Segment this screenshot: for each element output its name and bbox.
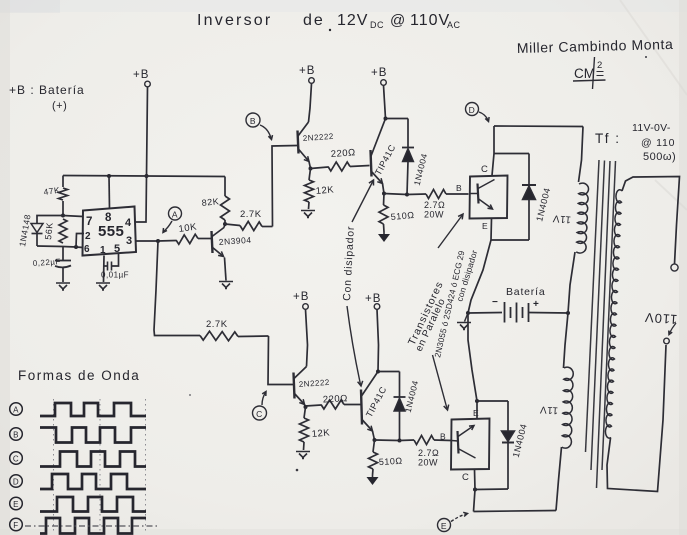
+B terminal (555 rail) xyxy=(133,69,150,87)
svg-text:12K: 12K xyxy=(315,184,334,197)
label 500W spec xyxy=(643,151,676,163)
svg-text:@: @ xyxy=(390,12,406,29)
arrow con disipador to lower TIP41C xyxy=(347,306,363,386)
waveform node label F xyxy=(10,518,23,531)
junction +B/rail xyxy=(145,174,149,178)
svg-text:+B: +B xyxy=(133,69,149,81)
resistor 82K xyxy=(201,177,229,225)
transformer secondary winding xyxy=(605,190,622,438)
label Formas de Onda xyxy=(18,368,140,383)
capacitor 0.22uF xyxy=(33,247,71,283)
pin 3 label xyxy=(126,235,133,247)
label Tf: xyxy=(595,131,621,146)
resistor 10K xyxy=(158,221,211,244)
svg-text:C: C xyxy=(256,409,263,419)
svg-text:220Ω: 220Ω xyxy=(330,147,356,160)
label C (Q7 collector) xyxy=(462,472,469,483)
label 11V (lower winding) xyxy=(539,404,558,416)
svg-text:1: 1 xyxy=(100,245,106,256)
wire top rail to transformer xyxy=(494,125,583,128)
waveform node label E xyxy=(10,497,23,510)
wire pin5 down xyxy=(112,254,119,267)
IC 555 timer box xyxy=(83,207,137,256)
node E arrow xyxy=(451,512,468,521)
transistor Q1 2N3904 xyxy=(212,228,252,281)
waveform F dash-dot baseline xyxy=(25,525,160,527)
svg-text:F: F xyxy=(13,521,18,530)
svg-text:11V-0V-: 11V-0V- xyxy=(632,122,671,134)
svg-text:CM: CM xyxy=(574,66,595,81)
wire Q6 emitter down to battery node xyxy=(468,240,491,313)
wire +B to Q4 collector xyxy=(306,310,308,367)
svg-text:2.7Ω: 2.7Ω xyxy=(424,200,445,210)
arrow at bottom terminal xyxy=(669,323,676,335)
wire pin2 stub xyxy=(76,234,84,248)
ground (12K lower) xyxy=(296,452,310,459)
wire centre tap to lower winding xyxy=(564,313,569,368)
svg-text:2.7Ω: 2.7Ω xyxy=(418,448,439,458)
label 11V-0V secondary spec xyxy=(632,122,671,134)
waveform node label A xyxy=(10,403,23,416)
transistor Q7 2N3055 (lower, boxed) xyxy=(451,419,490,470)
svg-text:E: E xyxy=(13,500,19,509)
junction TIP41C collector/diode xyxy=(384,117,388,121)
wire Q7 emitter up xyxy=(476,401,478,419)
waveform trace A xyxy=(40,403,146,416)
wire 2.7K up to 2N2222 base xyxy=(272,146,297,227)
diode D4 1N4004 (upper power) xyxy=(522,154,552,241)
label Con disipador xyxy=(341,225,357,301)
node C xyxy=(253,406,267,420)
transistor Q5 TIP41C (lower) xyxy=(361,372,389,432)
svg-text:+B: +B xyxy=(371,67,387,79)
signature: Miller Cambindo Monta xyxy=(517,36,674,56)
terminal secondary bottom xyxy=(664,338,670,344)
svg-text:6: 6 xyxy=(84,244,90,255)
waveform trace C xyxy=(40,452,146,467)
svg-text:B: B xyxy=(440,432,446,442)
ground (510R lower) xyxy=(367,475,379,485)
svg-text:+B: +B xyxy=(293,291,309,303)
resistor 2.7K (upper) xyxy=(225,209,273,231)
wire Q7 collector down xyxy=(474,470,476,512)
label E (Q6 emitter) xyxy=(482,221,488,231)
wire +B to TIP41C lower collector xyxy=(377,310,379,372)
transistor Q2 2N2222 (upper) xyxy=(298,122,335,162)
svg-text:220Ω: 220Ω xyxy=(323,393,348,405)
svg-text:0,01µF: 0,01µF xyxy=(101,271,129,280)
svg-text:2.7K: 2.7K xyxy=(206,319,228,330)
wire pin8 to rail xyxy=(108,176,111,209)
node A xyxy=(169,207,182,220)
svg-text:110V: 110V xyxy=(410,12,450,29)
waveform trace B xyxy=(40,428,146,443)
transformer core xyxy=(586,160,616,488)
label B (Q7 base) xyxy=(440,432,446,442)
resistor 12K (lower) xyxy=(300,407,331,450)
svg-text:510Ω: 510Ω xyxy=(379,456,403,467)
wire Q6 emitter to diode bottom xyxy=(491,219,529,241)
wire pin3 output xyxy=(136,240,158,242)
junction Q1 collector xyxy=(223,222,227,228)
svg-text:7: 7 xyxy=(86,216,93,228)
svg-text:56K: 56K xyxy=(43,222,55,240)
svg-text:B: B xyxy=(13,431,19,440)
wire up to lower winding xyxy=(556,447,562,511)
wire pin1 down xyxy=(103,256,106,283)
ground (510R upper) xyxy=(378,232,390,242)
transistor Q6 2N3055 (upper, boxed) xyxy=(470,176,508,219)
label E (Q7 emitter) xyxy=(473,408,479,418)
junction Q4 emitter xyxy=(304,405,308,410)
node D arrow xyxy=(479,112,489,122)
svg-text:(+): (+) xyxy=(52,100,67,112)
diode D5 1N4004 (lower power) xyxy=(502,401,529,489)
wire collector to diode D2 top xyxy=(386,118,409,120)
svg-text:AC: AC xyxy=(447,20,461,30)
svg-text:E: E xyxy=(482,221,488,231)
ground (0.22uF) xyxy=(56,283,70,290)
wire node to pin7 xyxy=(63,216,83,217)
svg-text:2.7K: 2.7K xyxy=(240,209,262,220)
label 11V (upper winding) xyxy=(552,212,571,225)
+B terminal (TIP41C upper) xyxy=(371,67,387,85)
resistor 510R (lower) xyxy=(369,440,403,475)
node E xyxy=(438,519,451,532)
battery B1 xyxy=(468,297,568,323)
+B terminal (2N2222 upper) xyxy=(299,65,315,83)
pin 4 label xyxy=(125,217,132,229)
waveform grid dotted lines xyxy=(54,399,146,531)
junction battery negative xyxy=(466,311,470,315)
wire emitter rail (upper) xyxy=(384,194,407,195)
wire rail branch to diode D4 xyxy=(494,153,529,155)
svg-text:−: − xyxy=(492,297,498,308)
svg-text:D: D xyxy=(13,478,19,487)
wire down to Q4 base xyxy=(268,336,293,385)
node C arrow xyxy=(262,392,266,406)
ground (12K upper) xyxy=(301,211,315,218)
svg-text:12V: 12V xyxy=(337,12,368,29)
label B (Q6 base) xyxy=(456,183,462,193)
svg-text:+B: +B xyxy=(299,65,315,77)
svg-text:Batería: Batería xyxy=(506,286,545,298)
svg-text:20W: 20W xyxy=(418,458,438,468)
wire +B to Q2 collector xyxy=(309,84,312,123)
svg-text:B: B xyxy=(250,116,256,126)
svg-text:+B : Batería: +B : Batería xyxy=(9,83,85,97)
svg-text:C: C xyxy=(462,472,469,483)
svg-text:+B: +B xyxy=(365,293,381,305)
pin 5 label xyxy=(114,243,121,255)
svg-text:@ 110: @ 110 xyxy=(641,137,675,149)
svg-text:2: 2 xyxy=(85,231,91,242)
+B terminal (2N2222 lower) xyxy=(293,291,309,309)
waveform node label D xyxy=(10,475,23,488)
junction rail/pin8 xyxy=(107,174,111,178)
wire Q7 emitter node to battery node xyxy=(468,313,477,401)
svg-text:8: 8 xyxy=(105,212,112,224)
label Bateria xyxy=(506,286,545,298)
terminal secondary top xyxy=(671,264,678,271)
label C (Q6 collector) xyxy=(481,164,488,175)
svg-text:C: C xyxy=(481,164,488,175)
waveform node label B xyxy=(10,428,23,441)
pin 1 label xyxy=(100,245,106,256)
svg-text:A: A xyxy=(172,210,178,220)
svg-text:C: C xyxy=(13,455,19,464)
wire +B rail xyxy=(63,176,225,177)
arrow to Q6 (paralelo) xyxy=(438,214,463,248)
junction TIP41C lower collector xyxy=(376,370,380,374)
resistor 2.7R 20W (lower) xyxy=(400,436,452,468)
transformer upper primary winding xyxy=(576,183,588,253)
ground (battery) xyxy=(457,313,471,330)
ground (Q1 emitter) xyxy=(219,282,233,289)
legend: +B Bateria (+) xyxy=(9,83,85,112)
svg-text:A: A xyxy=(13,406,19,415)
junction pin2/6 tie xyxy=(74,245,78,249)
waveform trace F xyxy=(40,518,146,534)
junction Q2 emitter xyxy=(309,162,313,171)
wire +B stem down to pin4 xyxy=(136,87,148,222)
+B terminal (TIP41C lower) xyxy=(365,293,381,309)
svg-text:+: + xyxy=(533,299,539,310)
junction Q7 collector node xyxy=(473,488,477,492)
wire secondary bottom lead xyxy=(607,345,666,492)
wire rail corner down to upper winding xyxy=(579,127,584,183)
svg-text:510Ω: 510Ω xyxy=(390,210,415,222)
svg-text:500ω): 500ω) xyxy=(643,151,676,163)
junction pin3 node xyxy=(156,239,160,243)
diode D2 1N4004 (upper TIP41C) xyxy=(402,119,429,195)
arrow con disipador to upper TIP41C xyxy=(352,180,374,222)
junction diode bottom (upper) xyxy=(405,193,409,197)
transistor Q3 TIP41C (upper) xyxy=(371,119,398,184)
svg-text:Tf :: Tf : xyxy=(595,131,621,146)
waveform trace E xyxy=(40,497,146,512)
svg-text:110V: 110V xyxy=(644,310,678,327)
wire rail down to Q6 collector xyxy=(492,126,494,176)
wire bottom rail to transformer xyxy=(474,511,557,512)
svg-text:20W: 20W xyxy=(424,210,444,220)
pin 8 label xyxy=(105,212,112,224)
diode 1N4148 xyxy=(17,213,43,247)
wire pin3 node down to 2.7K lower xyxy=(154,241,200,336)
resistor 56K xyxy=(43,219,67,243)
svg-text:3: 3 xyxy=(126,235,133,247)
svg-text:12K: 12K xyxy=(311,427,330,440)
wire emitter node to diode D5 top xyxy=(477,400,508,402)
waveform trace D xyxy=(40,474,146,489)
svg-text:555: 555 xyxy=(98,223,124,240)
label @110 spec xyxy=(641,137,675,149)
wire pins 2-6 bottom node xyxy=(37,246,83,248)
svg-text:D: D xyxy=(469,105,476,115)
svg-text:2: 2 xyxy=(597,60,603,71)
wire +B to TIP41C collector xyxy=(384,86,386,119)
title: Inversor de 12VDC @ 110VAC xyxy=(197,12,461,31)
capacitor 0.01uF xyxy=(101,262,129,280)
pin 6 label xyxy=(84,244,90,255)
svg-text:11V: 11V xyxy=(552,212,571,225)
svg-text:11V: 11V xyxy=(539,404,558,416)
node A arrow xyxy=(163,221,172,233)
waveform node label C xyxy=(10,452,23,465)
junction transformer centre tap xyxy=(566,311,570,315)
svg-text:5: 5 xyxy=(114,243,121,255)
resistor 12K (upper) xyxy=(305,169,335,210)
transformer lower primary winding xyxy=(562,367,573,448)
ground (pin 1) xyxy=(96,283,110,290)
resistor 2.7R 20W (upper) xyxy=(407,190,469,220)
svg-text:de: de xyxy=(303,12,325,29)
pin 7 label xyxy=(86,216,93,228)
node B arrow xyxy=(260,125,273,140)
svg-text:Formas de Onda: Formas de Onda xyxy=(18,368,140,383)
svg-text:E: E xyxy=(473,408,479,418)
junction TIP41C lower emitter xyxy=(373,431,377,442)
label Transistores en Paralelo xyxy=(406,249,480,359)
transistor Q4 2N2222 (lower) xyxy=(294,367,331,405)
wire emitter rail (lower) xyxy=(375,439,400,442)
wire secondary top lead xyxy=(622,177,680,265)
junction Q7 emitter node xyxy=(475,399,479,403)
svg-text:Inversor: Inversor xyxy=(197,12,272,29)
signature monogram CM2 xyxy=(573,57,606,89)
resistor 220R (lower) xyxy=(306,393,361,409)
resistor 220R (upper) xyxy=(311,147,370,171)
node 555 pin7 junction xyxy=(61,214,65,218)
svg-text:82K: 82K xyxy=(201,196,219,208)
svg-text:B: B xyxy=(456,183,462,193)
svg-text:4: 4 xyxy=(125,217,132,229)
diode D3 1N4004 (lower TIP41C) xyxy=(394,372,421,441)
wire diode D5 bottom to collector xyxy=(475,488,508,491)
node B xyxy=(246,113,260,127)
label 110V output xyxy=(644,310,678,327)
svg-text:DC: DC xyxy=(370,20,384,30)
arrow to Q7 (paralelo) xyxy=(433,355,449,410)
resistor 2.7K (lower) xyxy=(200,319,269,341)
junction diode bottom (lower) xyxy=(398,439,402,443)
resistor 47K xyxy=(43,176,68,216)
junction TIP41C emitter xyxy=(382,184,386,196)
wire node to diode xyxy=(37,216,63,224)
node D xyxy=(466,103,479,116)
pin 2 label xyxy=(85,231,91,242)
wire collector to diode D3 top xyxy=(378,371,400,373)
svg-text:E: E xyxy=(441,521,447,531)
wire upper winding to centre tap xyxy=(568,252,575,313)
resistor 510R (upper) xyxy=(379,194,415,233)
